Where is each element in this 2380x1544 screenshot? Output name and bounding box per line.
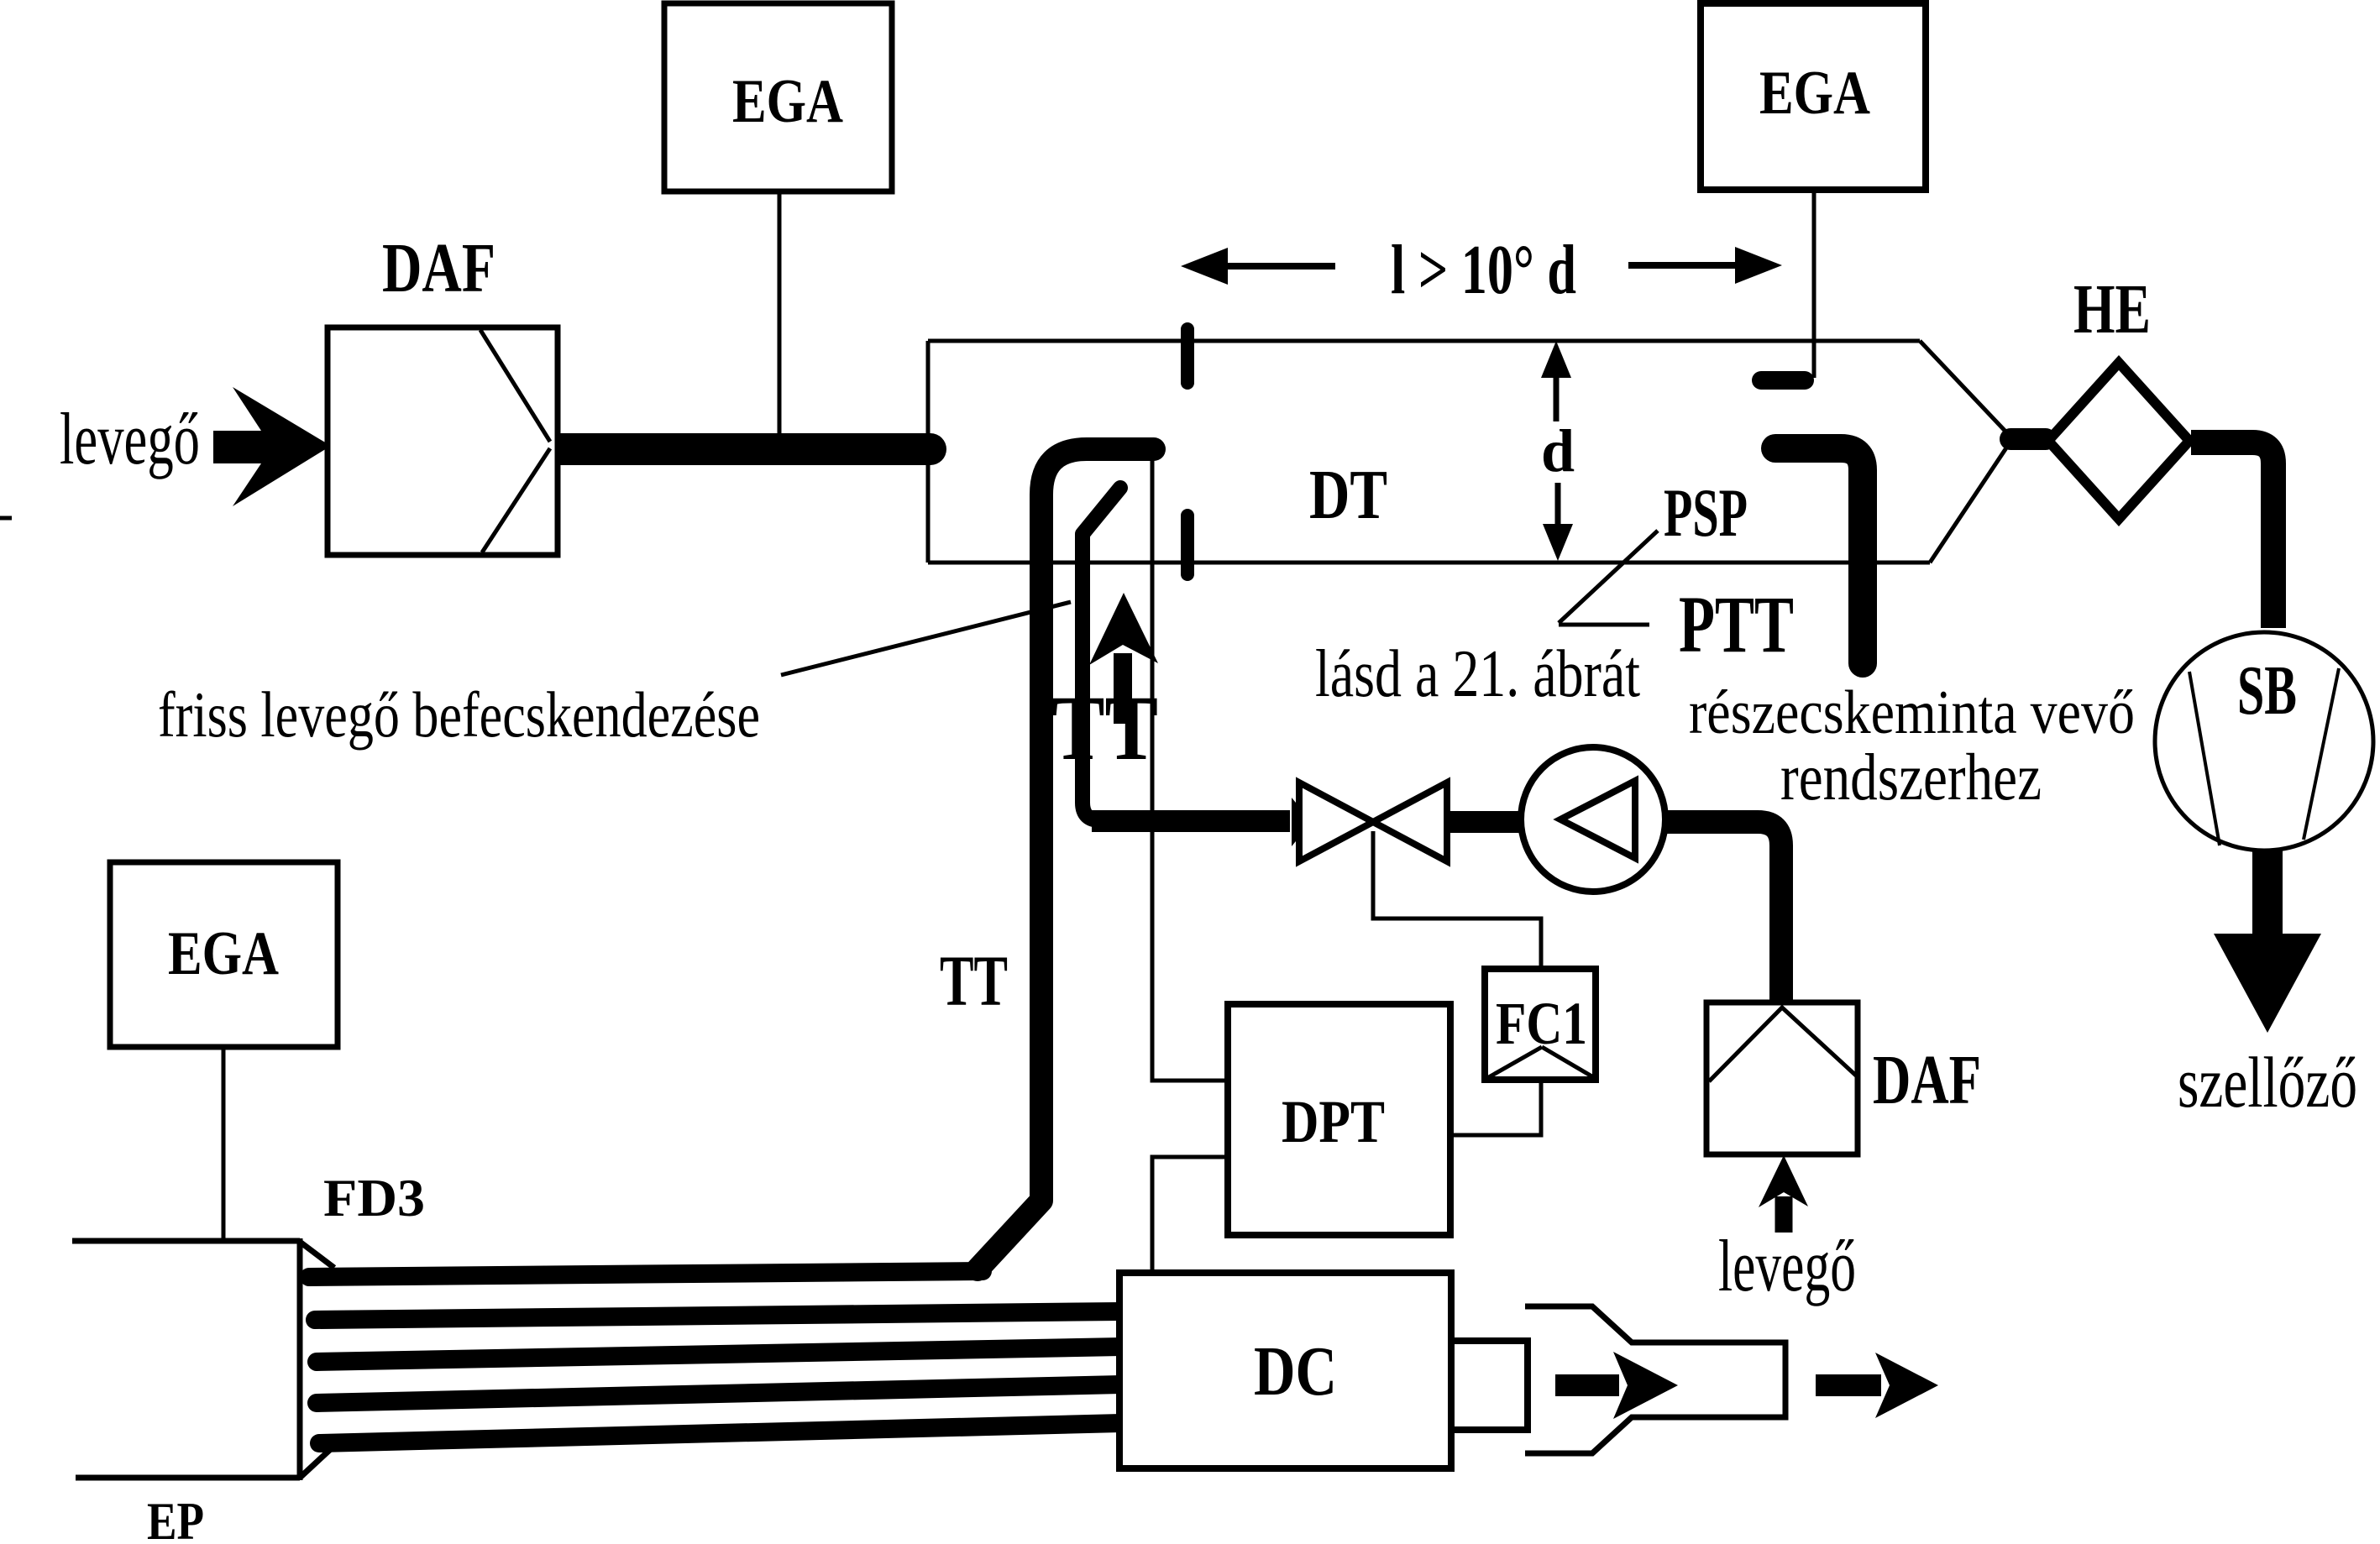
orifice tick bottom bbox=[1181, 516, 1194, 574]
dimension arrow d upper bbox=[1554, 356, 1560, 421]
svg-text:rendszerhez: rendszerhez bbox=[1780, 741, 2042, 814]
svg-text:friss levegő befecskendezése: friss levegő befecskendezése bbox=[158, 678, 760, 751]
wire: DPT pressure tap from tunnel bbox=[1152, 458, 1226, 1081]
arrow: fresh air up arrow under tunnel bbox=[1114, 653, 1132, 724]
box DAF2 dilution air filter bbox=[1706, 1002, 1858, 1154]
blower SB circle bbox=[2155, 632, 2373, 851]
svg-text:TT: TT bbox=[1051, 677, 1158, 779]
svg-text:DAF: DAF bbox=[1873, 1041, 1981, 1119]
pipe: HE to SB bbox=[2191, 442, 2273, 628]
wire: pipe to valve bbox=[1092, 810, 1290, 832]
box EGA3 bbox=[110, 862, 338, 1047]
pipe TT hook inside tunnel (transfer tube outlet) bbox=[978, 449, 1154, 1269]
svg-text:DT: DT bbox=[1309, 456, 1387, 534]
wire: valve to pump pipe bbox=[1449, 811, 1523, 833]
wire: exhaust bundle line 5 bbox=[319, 1423, 1121, 1443]
tunnel DT outline bbox=[928, 339, 1920, 343]
svg-text:d: d bbox=[1541, 417, 1575, 484]
arrow: levego up into DAF2 bbox=[1775, 1196, 1793, 1233]
wire: EGA2 stem bbox=[1812, 190, 1816, 378]
svg-text:lásd a 21. ábrát: lásd a 21. ábrát bbox=[1315, 637, 1640, 711]
dimension arrow l>10d left bbox=[1196, 263, 1335, 270]
leader line friss levego bbox=[781, 602, 1071, 675]
svg-text:PSP: PSP bbox=[1664, 474, 1748, 551]
svg-text:levegő: levegő bbox=[1718, 1226, 1856, 1307]
box DPT bbox=[1228, 1004, 1450, 1235]
pipe: fresh air injection tube bbox=[1083, 488, 1120, 820]
wire: exhaust bundle line 4 bbox=[317, 1384, 1121, 1403]
box EGA2 bbox=[1701, 3, 1926, 190]
box DAF1 dilution air filter bbox=[328, 327, 558, 555]
exhaust pipe EP outline bbox=[72, 1238, 300, 1244]
svg-text:FD3: FD3 bbox=[323, 1168, 425, 1227]
wire: EGA1 stem bbox=[778, 191, 782, 434]
pump circle bbox=[1521, 747, 1665, 892]
orifice tick top bbox=[1181, 329, 1194, 383]
stray scan mark left edge bbox=[0, 516, 12, 521]
svg-text:EGA: EGA bbox=[1759, 59, 1870, 128]
tailpipe funnel outline bbox=[1525, 1306, 1785, 1453]
wire: DPT to DC tap bbox=[1152, 1157, 1226, 1271]
svg-text:HE: HE bbox=[2073, 270, 2151, 348]
wire: tunnel nozzle to HE stub bbox=[2010, 428, 2046, 450]
wire: exhaust bundle line 3 bbox=[317, 1347, 1121, 1362]
svg-text:EP: EP bbox=[147, 1491, 204, 1540]
wire: valve stem to FC1 bbox=[1373, 831, 1541, 967]
svg-text:TT: TT bbox=[940, 940, 1008, 1021]
svg-text:SB: SB bbox=[2237, 652, 2297, 730]
arrow: levego inlet arrow to DAF1 bbox=[213, 387, 331, 506]
wire: exhaust bundle line 1 (to TT) bbox=[309, 1271, 983, 1277]
arrow: tailpipe flow 1 bbox=[1555, 1374, 1619, 1396]
svg-text:l > 10° d: l > 10° d bbox=[1391, 231, 1576, 309]
wire: dilution air pipe DAF1 to tunnel DT bbox=[561, 433, 931, 465]
arrowhead at valve inlet bbox=[1292, 798, 1312, 846]
svg-text:levegő: levegő bbox=[60, 399, 200, 480]
leader line PSP bbox=[1559, 531, 1658, 623]
valve (bowtie) bbox=[1299, 782, 1373, 861]
box: DC outlet connector bbox=[1451, 1341, 1528, 1430]
arrow: tailpipe flow 2 bbox=[1816, 1374, 1881, 1396]
svg-text:DPT: DPT bbox=[1282, 1088, 1385, 1155]
svg-text:szellőző: szellőző bbox=[2178, 1042, 2357, 1123]
box EGA1 bbox=[664, 3, 892, 191]
dimension arrow d lower bbox=[1555, 483, 1561, 546]
svg-text:EGA: EGA bbox=[732, 67, 843, 136]
svg-text:EGA: EGA bbox=[168, 919, 279, 988]
probe: EGA2 sampling stub bbox=[1761, 371, 1805, 390]
probe PSP hook in tunnel bbox=[1775, 448, 1863, 663]
box FC1 bbox=[1485, 969, 1596, 1080]
svg-text:részecskeminta vevő: részecskeminta vevő bbox=[1689, 678, 2135, 747]
svg-text:PTT: PTT bbox=[1679, 579, 1794, 669]
wire: exhaust bundle line 2 bbox=[315, 1311, 1121, 1320]
svg-text:DC: DC bbox=[1254, 1332, 1337, 1411]
svg-text:DAF: DAF bbox=[382, 229, 495, 307]
wire: FC1 to DPT bbox=[1452, 1081, 1541, 1135]
arrow: SB outlet down arrow bbox=[2252, 846, 2283, 939]
heat exchanger HE diamond bbox=[2048, 363, 2189, 519]
pipe: pump to DAF2 bbox=[1667, 822, 1781, 1001]
box DC bbox=[1119, 1273, 1451, 1468]
dimension arrow l>10d right bbox=[1628, 262, 1767, 269]
wire: EGA3 stem bbox=[222, 1047, 226, 1241]
